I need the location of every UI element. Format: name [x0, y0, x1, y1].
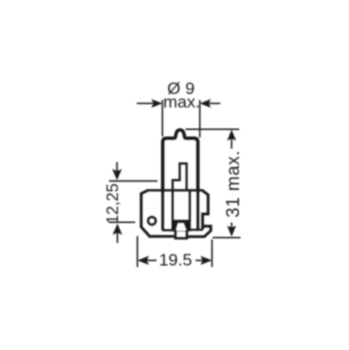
glass envelope with tip-off bump: [163, 130, 198, 192]
extension line: glass diameter left: [161, 100, 163, 137]
dimension line: diameter right shaft: [209, 102, 220, 104]
arrowhead: diameter left: [151, 99, 162, 108]
extension line: 12,25 upper reference: [109, 180, 158, 182]
dimension line: 12,25 upper shaft: [116, 162, 118, 172]
dimension line: base width right shaft: [196, 259, 204, 261]
arrowhead: base width left: [137, 256, 149, 265]
extension line: 31 max top reference: [186, 128, 240, 130]
arrowhead: 12,25 upper (down): [112, 169, 122, 180]
base underside shelf left: [162, 229, 175, 231]
arrowhead: 12,25 lower (up): [113, 224, 123, 235]
extension line: glass diameter right: [199, 100, 201, 138]
svg-text:max.: max.: [163, 92, 200, 111]
contact tab trapezoid: [175, 223, 187, 231]
extension line: base width left: [136, 236, 138, 267]
arrowhead: base width right: [201, 256, 213, 265]
extension line: base width right: [211, 240, 213, 268]
base flange left outline with chamfers: [141, 190, 149, 236]
svg-text:19.5: 19.5: [159, 251, 192, 270]
base flange top edge: [147, 189, 203, 191]
bottom contact foot: [175, 230, 187, 238]
svg-text:31 max.: 31 max.: [223, 150, 243, 218]
dimension line: base width left shaft: [146, 259, 157, 261]
base underside shelf right: [187, 229, 203, 231]
extension line: 12,25 lower reference: [109, 221, 135, 223]
svg-text:12,25: 12,25: [104, 183, 122, 224]
inner lead wire right: [189, 190, 191, 220]
extension line: 31 max bottom reference: [213, 237, 241, 239]
dimension line: 12,25 lower shaft: [116, 233, 118, 243]
filament support frame: [173, 164, 187, 221]
dimension line: 31 max upper shaft: [231, 138, 233, 149]
base flange bottom edge left: [148, 235, 175, 238]
contact recess dark fill: [172, 220, 191, 232]
dimension line: diameter left shaft: [137, 102, 153, 104]
base right lower lobe and bottom edge: [187, 226, 211, 236]
glass pinch seal left wall: [161, 190, 164, 230]
dimension line: 31 max lower shaft: [231, 223, 233, 228]
arrowhead: 31 max upper (up): [227, 130, 236, 141]
glass pinch seal right wall: [196, 190, 199, 230]
arrowhead: diameter right: [200, 99, 211, 108]
base flange right outline with keyway notch: [202, 190, 208, 230]
arrowhead: 31 max lower (down): [227, 226, 236, 237]
base fixing hole: [148, 217, 156, 225]
